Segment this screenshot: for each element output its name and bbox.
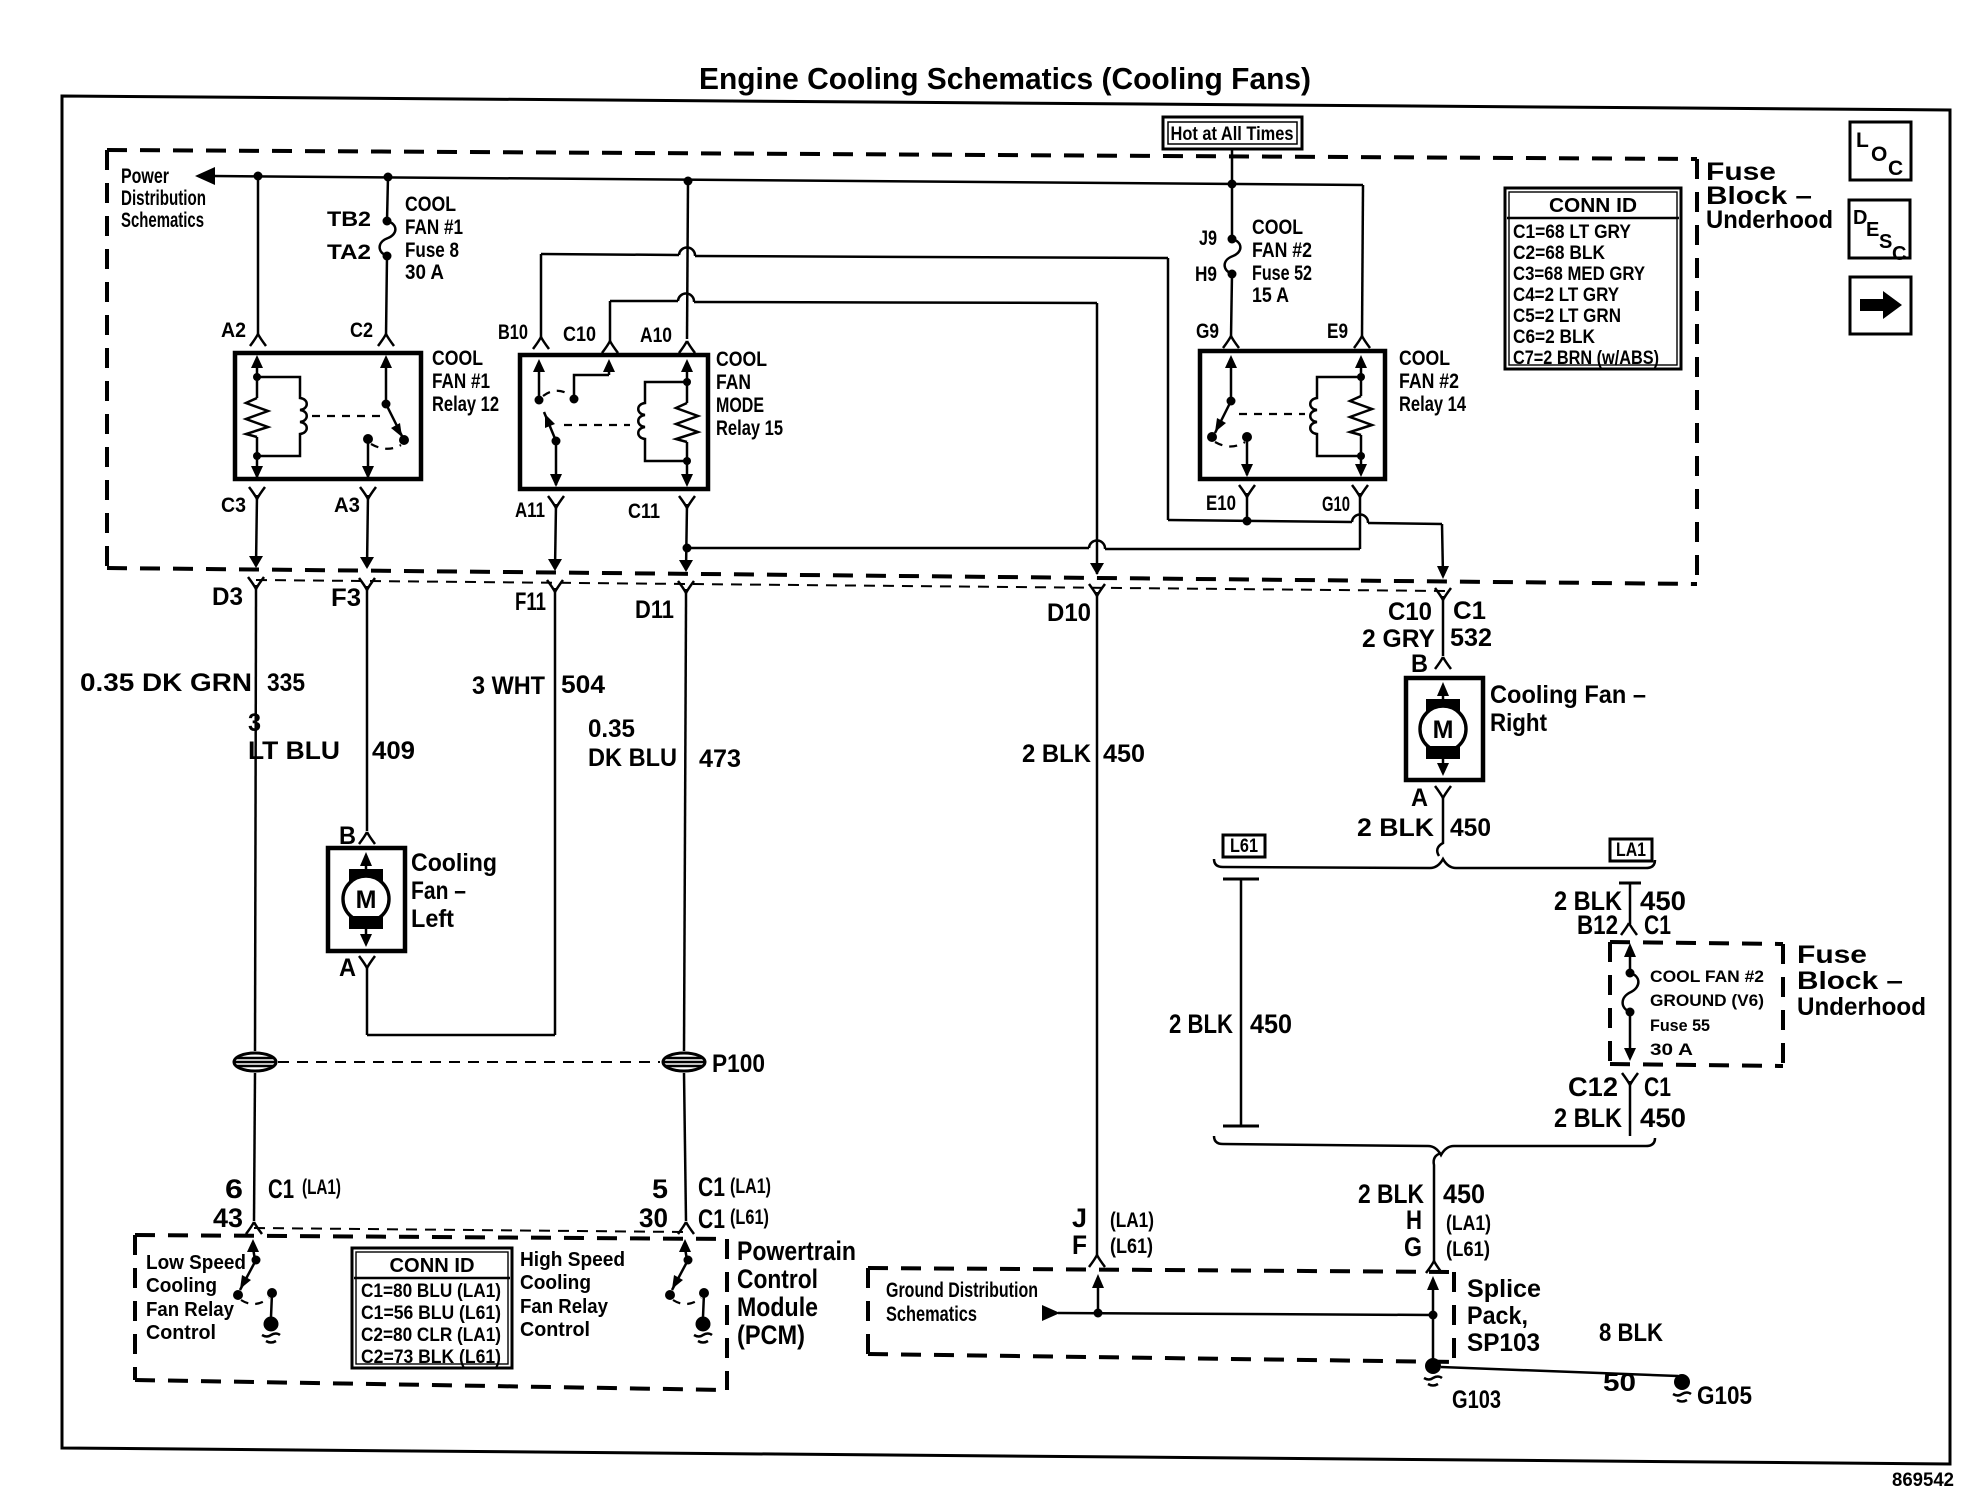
svg-text:30: 30 xyxy=(639,1203,668,1233)
connector pin A right fan xyxy=(1435,786,1451,798)
svg-text:43: 43 xyxy=(213,1203,243,1233)
svg-text:E10: E10 xyxy=(1206,492,1236,515)
svg-text:H: H xyxy=(1406,1205,1422,1235)
svg-text:Pack,: Pack, xyxy=(1467,1302,1528,1330)
wire D11 down to P100 xyxy=(684,604,686,1051)
svg-text:FAN: FAN xyxy=(716,371,751,394)
node bus-fuse52 xyxy=(1228,180,1237,189)
svg-text:G105: G105 xyxy=(1697,1382,1752,1410)
svg-text:C4=2 LT GRY: C4=2 LT GRY xyxy=(1513,285,1619,306)
DESC box xyxy=(1849,200,1910,265)
Hot at All Times label box xyxy=(1163,117,1302,149)
svg-text:CONN ID: CONN ID xyxy=(1549,195,1637,217)
LOC box xyxy=(1850,122,1911,180)
svg-text:A: A xyxy=(339,954,356,982)
svg-text:O: O xyxy=(1871,143,1887,166)
svg-text:5: 5 xyxy=(652,1174,668,1204)
svg-text:FAN #1: FAN #1 xyxy=(432,370,490,393)
svg-text:A10: A10 xyxy=(640,324,672,347)
svg-text:C10: C10 xyxy=(563,323,596,346)
relay R14 linkage dashes xyxy=(1239,413,1305,415)
svg-text:Underhood: Underhood xyxy=(1706,206,1833,234)
svg-text:Fuse 55: Fuse 55 xyxy=(1650,1016,1710,1035)
relay R15 switch pin B10 xyxy=(533,359,545,405)
label J F (LA1) (L61) xyxy=(1072,1203,1154,1260)
svg-text:450: 450 xyxy=(1640,1103,1686,1133)
connector pin C11 xyxy=(679,496,695,508)
svg-text:Block –: Block – xyxy=(1797,967,1903,995)
relay R12 box (COOL FAN #1 Relay 12) xyxy=(235,353,421,479)
svg-text:(LA1): (LA1) xyxy=(302,1176,341,1199)
connector pin B right fan xyxy=(1435,657,1451,669)
svg-text:Splice: Splice xyxy=(1467,1275,1541,1303)
svg-text:A: A xyxy=(1411,784,1428,812)
label Fuse Block - Underhood (top right) xyxy=(1706,158,1833,234)
label Cooling Fan - Left xyxy=(411,849,497,933)
connector pin G9 xyxy=(1223,336,1239,348)
svg-text:Distribution: Distribution xyxy=(121,187,206,210)
svg-text:3: 3 xyxy=(248,709,261,737)
svg-text:B10: B10 xyxy=(498,321,528,344)
svg-text:C6=2 BLK: C6=2 BLK xyxy=(1513,327,1595,348)
connector pin D10 arrow and terminal xyxy=(1089,563,1105,607)
svg-text:Control: Control xyxy=(520,1319,590,1341)
svg-text:Relay 15: Relay 15 xyxy=(716,417,783,440)
label High Speed Cooling Fan Relay Control xyxy=(520,1249,625,1341)
label Cooling Fan - Right xyxy=(1490,681,1646,737)
svg-text:A3: A3 xyxy=(334,494,360,517)
connector pin C10 xyxy=(602,341,618,353)
label Splice Pack SP103 xyxy=(1467,1275,1541,1357)
switch high speed cooling fan relay control xyxy=(665,1239,712,1343)
connector pin F11 arrow and terminal xyxy=(547,559,563,603)
connector pin B left fan xyxy=(359,832,375,844)
svg-text:(LA1): (LA1) xyxy=(1446,1212,1491,1235)
svg-text:COOL: COOL xyxy=(716,348,767,371)
node J-F ground junction xyxy=(1094,1309,1103,1318)
svg-text:C1: C1 xyxy=(1644,910,1671,940)
relay R15 contact arc dashes xyxy=(543,391,570,396)
relay R15 armature from A11 pivot xyxy=(544,412,562,487)
connector pin F3 arrow and terminal xyxy=(359,557,375,601)
wire F3 down to left fan B xyxy=(366,601,369,831)
svg-text:(L61): (L61) xyxy=(1110,1235,1153,1258)
svg-text:TA2: TA2 xyxy=(327,241,371,264)
svg-text:G10: G10 xyxy=(1322,493,1350,516)
svg-text:F11: F11 xyxy=(515,588,546,616)
svg-text:C2: C2 xyxy=(350,319,373,342)
svg-text:(LA1): (LA1) xyxy=(730,1175,771,1198)
relay R14 box (COOL FAN #2 Relay 14) xyxy=(1200,351,1385,479)
node E10 junction xyxy=(1243,517,1252,526)
svg-text:CONN ID: CONN ID xyxy=(390,1255,475,1277)
wire Hot at All Times to fuse 52 xyxy=(1231,149,1234,239)
svg-text:E9: E9 xyxy=(1327,320,1348,343)
label Powertrain Control Module (PCM) xyxy=(737,1236,856,1350)
svg-text:(L61): (L61) xyxy=(730,1206,769,1229)
PCM CONN ID table xyxy=(352,1248,512,1368)
wire P100 right to PCM pin 5-30 xyxy=(684,1073,686,1221)
wire brace to H-G xyxy=(1434,1153,1441,1261)
svg-text:2 GRY: 2 GRY xyxy=(1362,625,1435,653)
wire F11 down and over to left fan A xyxy=(367,603,555,1035)
svg-text:409: 409 xyxy=(372,737,415,765)
svg-text:C5=2 LT GRN: C5=2 LT GRN xyxy=(1513,306,1621,327)
wire G10 return line to C11 node xyxy=(687,540,1360,549)
label COOL FAN #1 Relay 12 xyxy=(432,347,499,416)
connector pin E10 xyxy=(1239,485,1255,497)
svg-text:2 BLK: 2 BLK xyxy=(1022,740,1091,768)
label COOL FAN #1 Fuse 8 30 A xyxy=(405,193,463,284)
svg-text:Fuse: Fuse xyxy=(1797,941,1867,969)
svg-text:2 BLK: 2 BLK xyxy=(1357,814,1434,842)
connector pin A2 xyxy=(250,334,266,346)
svg-text:15 A: 15 A xyxy=(1252,284,1289,307)
svg-text:Fuse 8: Fuse 8 xyxy=(405,239,459,262)
PCM connector terminal low speed xyxy=(246,1222,262,1234)
motor M1 Cooling Fan Left xyxy=(328,848,405,951)
svg-text:Cooling: Cooling xyxy=(520,1272,591,1294)
label box LA1 xyxy=(1610,839,1652,861)
svg-text:C10: C10 xyxy=(1388,598,1432,626)
svg-text:Fuse 52: Fuse 52 xyxy=(1252,262,1312,285)
wire P100 left to PCM pin 6-43 xyxy=(254,1073,255,1221)
wire B10 riser and corner to relay 14 side xyxy=(541,248,1168,521)
svg-text:C12: C12 xyxy=(1568,1072,1618,1102)
harness top brace xyxy=(1214,859,1655,868)
svg-text:(L61): (L61) xyxy=(1446,1238,1490,1261)
svg-text:Cooling Fan –: Cooling Fan – xyxy=(1490,681,1646,709)
svg-text:L: L xyxy=(1856,129,1869,152)
svg-text:2 BLK: 2 BLK xyxy=(1169,1009,1233,1039)
svg-text:Relay 12: Relay 12 xyxy=(432,393,499,416)
svg-text:C1: C1 xyxy=(698,1204,725,1234)
switch low speed cooling fan relay control xyxy=(233,1239,280,1343)
ground distribution dashed box xyxy=(868,1268,1454,1362)
svg-text:C3=68 MED GRY: C3=68 MED GRY xyxy=(1513,264,1645,285)
relay R14 switch pin G9 xyxy=(1207,355,1253,477)
svg-text:TB2: TB2 xyxy=(327,208,371,231)
svg-text:Cooling: Cooling xyxy=(411,849,497,877)
label Power Distribution Schematics xyxy=(121,165,206,232)
svg-text:C: C xyxy=(1888,157,1903,180)
wire bus to fuse 8 xyxy=(387,177,388,221)
svg-text:450: 450 xyxy=(1103,740,1145,768)
wire A2 from bus to relay 12 xyxy=(257,176,260,336)
svg-text:C7=2 BRN (w/ABS): C7=2 BRN (w/ABS) xyxy=(1513,348,1659,369)
connector pin A left fan xyxy=(359,956,375,968)
svg-text:FAN #2: FAN #2 xyxy=(1252,239,1312,262)
svg-text:DK BLU: DK BLU xyxy=(588,744,677,772)
svg-text:D3: D3 xyxy=(212,583,243,611)
wire E10 down to splice line xyxy=(1246,493,1249,521)
svg-text:C1: C1 xyxy=(268,1174,294,1204)
connector pin A11 xyxy=(548,496,564,508)
svg-text:COOL: COOL xyxy=(1252,216,1303,239)
fuse F55 (COOL FAN #2 GROUND Fuse 55) xyxy=(1623,943,1639,1061)
relay R12 switch pin C2-A3 xyxy=(362,355,409,479)
svg-text:Engine Cooling Schematics (Coo: Engine Cooling Schematics (Cooling Fans) xyxy=(699,61,1311,96)
svg-text:8 BLK: 8 BLK xyxy=(1599,1319,1663,1347)
svg-text:Cooling: Cooling xyxy=(146,1275,217,1297)
wire A11 to F11 connector xyxy=(555,504,556,569)
svg-text:Power: Power xyxy=(121,165,169,188)
connector pin C2 xyxy=(378,334,394,346)
PCM pin labels 5 30 C1 C1 xyxy=(639,1172,771,1234)
svg-text:C11: C11 xyxy=(628,500,660,523)
connector pin G10 xyxy=(1352,485,1368,497)
svg-text:450: 450 xyxy=(1443,1179,1485,1209)
svg-text:C1: C1 xyxy=(1453,597,1486,625)
harness bottom brace xyxy=(1214,1136,1655,1155)
PCM thin dashed pin line xyxy=(254,1228,686,1232)
svg-text:L61: L61 xyxy=(1230,836,1258,857)
svg-text:COOL: COOL xyxy=(405,193,456,216)
svg-text:G103: G103 xyxy=(1452,1386,1501,1414)
svg-text:0.35 DK GRN: 0.35 DK GRN xyxy=(80,669,252,697)
wire G103 to G105 8 BLK 50 xyxy=(1441,1367,1678,1376)
node bus-C2 xyxy=(384,173,393,182)
svg-text:C1=80 BLU (LA1): C1=80 BLU (LA1) xyxy=(361,1281,501,1302)
svg-text:F3: F3 xyxy=(331,584,361,612)
svg-text:S: S xyxy=(1879,231,1892,253)
relay R15 box (COOL FAN MODE Relay 15) xyxy=(520,355,708,489)
svg-text:450: 450 xyxy=(1250,1009,1292,1039)
power bus wire with left arrow xyxy=(195,167,1363,185)
svg-text:COOL FAN #2: COOL FAN #2 xyxy=(1650,967,1764,986)
svg-text:F: F xyxy=(1072,1230,1087,1260)
svg-text:532: 532 xyxy=(1450,624,1492,652)
svg-text:FAN #1: FAN #1 xyxy=(405,216,463,239)
svg-text:Control: Control xyxy=(737,1264,818,1294)
dashed link P100 xyxy=(278,1061,660,1063)
svg-text:Underhood: Underhood xyxy=(1797,993,1926,1021)
connector pin J-F xyxy=(1089,1255,1105,1267)
svg-text:J9: J9 xyxy=(1199,227,1217,250)
svg-text:G9: G9 xyxy=(1196,320,1219,343)
forward arrow box xyxy=(1850,277,1911,334)
svg-text:C2=80 CLR (LA1): C2=80 CLR (LA1) xyxy=(361,1325,501,1346)
label Ground Distribution Schematics xyxy=(886,1279,1038,1326)
wire C10 riser and corner to D10 xyxy=(610,293,1097,574)
svg-text:Low Speed: Low Speed xyxy=(146,1252,246,1274)
svg-text:J: J xyxy=(1072,1203,1087,1233)
node bus-A2 xyxy=(254,172,263,181)
PCM connector terminal high speed xyxy=(678,1222,694,1234)
svg-text:Schematics: Schematics xyxy=(886,1303,977,1326)
connector pin C12 xyxy=(1622,1073,1638,1136)
svg-text:6: 6 xyxy=(225,1174,243,1204)
svg-text:Module: Module xyxy=(737,1292,818,1322)
svg-text:COOL: COOL xyxy=(432,347,483,370)
connector pin C10-C1 terminal xyxy=(1435,588,1451,656)
wire A3 to F3 connector xyxy=(367,495,368,567)
svg-text:C2=73 BLK (L61): C2=73 BLK (L61) xyxy=(361,1347,501,1368)
svg-text:450: 450 xyxy=(1450,814,1491,842)
svg-text:Schematics: Schematics xyxy=(121,209,204,232)
svg-text:C1: C1 xyxy=(1644,1072,1671,1102)
svg-text:C1: C1 xyxy=(698,1172,725,1202)
label COOL FAN #2 Fuse 52 15 A xyxy=(1252,216,1312,307)
fuse block 55 dashed box xyxy=(1610,942,1783,1066)
svg-text:Right: Right xyxy=(1490,709,1548,737)
svg-text:Powertrain: Powertrain xyxy=(737,1236,856,1266)
svg-text:Fan –: Fan – xyxy=(411,877,466,905)
relay R15 linkage dashes xyxy=(564,424,630,426)
grommet P100 left xyxy=(234,1053,276,1071)
svg-text:H9: H9 xyxy=(1195,263,1217,286)
label COOL FAN #2 Relay 14 xyxy=(1399,347,1466,416)
svg-text:MODE: MODE xyxy=(716,394,764,417)
fuse F52 (COOL FAN #2 Fuse 52 15 A) xyxy=(1225,235,1241,279)
wire C3 to D3 connector xyxy=(256,495,257,566)
svg-text:335: 335 xyxy=(267,669,305,697)
svg-text:LA1: LA1 xyxy=(1616,840,1646,861)
wire C11 to D11 connector with branch node xyxy=(686,504,687,570)
svg-text:LT BLU: LT BLU xyxy=(248,737,340,765)
svg-text:M: M xyxy=(356,886,377,914)
svg-text:Fan Relay: Fan Relay xyxy=(146,1299,235,1321)
svg-text:C: C xyxy=(1892,243,1906,265)
label Low Speed Cooling Fan Relay Control xyxy=(146,1252,246,1344)
wire right fan A to harness brace xyxy=(1437,796,1443,856)
connector pin C3 xyxy=(249,487,265,499)
svg-text:G: G xyxy=(1404,1232,1422,1262)
wire D3 down to P100 xyxy=(255,600,256,1051)
svg-text:E: E xyxy=(1866,219,1879,241)
svg-text:473: 473 xyxy=(699,745,741,773)
fuse block underhood dashed box xyxy=(107,150,1697,584)
svg-text:3 WHT: 3 WHT xyxy=(472,672,545,700)
svg-text:Fan Relay: Fan Relay xyxy=(520,1296,609,1318)
svg-text:C2=68 BLK: C2=68 BLK xyxy=(1513,243,1605,264)
wire splice E10 to fan right drop xyxy=(1168,514,1449,579)
PCM dashed box xyxy=(135,1235,727,1390)
label H G (LA1) (L61) xyxy=(1404,1205,1491,1262)
svg-text:869542: 869542 xyxy=(1892,1470,1954,1491)
svg-text:2 BLK: 2 BLK xyxy=(1554,1103,1622,1133)
relay R15 coil winding xyxy=(638,382,687,461)
svg-text:Hot at All Times: Hot at All Times xyxy=(1171,124,1294,145)
wire fuse 8 to C2 xyxy=(386,256,387,336)
svg-text:0.35: 0.35 xyxy=(588,715,635,743)
svg-text:GROUND (V6): GROUND (V6) xyxy=(1650,991,1764,1010)
relay R15 pin C10 stub xyxy=(570,359,616,404)
svg-text:High Speed: High Speed xyxy=(520,1249,625,1271)
svg-text:FAN #2: FAN #2 xyxy=(1399,370,1459,393)
label Fuse Block - Underhood (mid right) xyxy=(1797,941,1926,1021)
relay R12 coil pin A2-C3 xyxy=(246,355,268,479)
relay R14 coil pin E9-G10 xyxy=(1350,355,1372,477)
svg-text:50: 50 xyxy=(1603,1369,1636,1397)
svg-text:B: B xyxy=(1411,650,1428,678)
fuse F8 (COOL FAN #1 Fuse 8 30 A) xyxy=(380,217,396,261)
connector pin A3 xyxy=(360,487,376,499)
wire A10 from bus to relay 15 xyxy=(687,181,688,339)
grommet P100 right xyxy=(663,1053,705,1071)
PCM pin labels 6 43 C1 xyxy=(213,1174,341,1233)
svg-text:M: M xyxy=(1433,716,1454,744)
svg-text:Control: Control xyxy=(146,1322,216,1344)
wire J-F into ground box xyxy=(1092,1274,1104,1313)
connector pin D11 arrow and terminal xyxy=(678,560,694,604)
wire G10 down crossing splice line xyxy=(1359,493,1362,549)
node H-G ground junction xyxy=(1429,1311,1438,1320)
svg-text:Relay 14: Relay 14 xyxy=(1399,393,1466,416)
ground feed wire with arrow xyxy=(1042,1305,1433,1321)
relay R15 coil pin A10-C11 xyxy=(676,359,698,487)
ground G105 xyxy=(1673,1374,1691,1402)
svg-text:(PCM): (PCM) xyxy=(737,1320,805,1350)
wire fuse 52 to G9 xyxy=(1231,274,1232,337)
svg-text:COOL: COOL xyxy=(1399,347,1450,370)
connector pin H-G xyxy=(1426,1261,1442,1273)
svg-text:C1=56 BLU (L61): C1=56 BLU (L61) xyxy=(361,1303,501,1324)
motor M2 Cooling Fan Right xyxy=(1406,678,1483,780)
node bus-A10 xyxy=(684,177,693,186)
svg-text:C1=68 LT GRY: C1=68 LT GRY xyxy=(1513,222,1631,243)
label COOL FAN #2 GROUND (V6) Fuse 55 30 A xyxy=(1650,967,1764,1059)
connector pin D3 arrow and terminal xyxy=(248,556,264,600)
connector row thin dashed line xyxy=(256,580,1445,591)
svg-text:B12: B12 xyxy=(1577,910,1618,940)
label COOL FAN MODE Relay 15 xyxy=(716,348,783,440)
relay R12 coil winding xyxy=(257,377,307,456)
svg-text:504: 504 xyxy=(561,671,605,699)
svg-text:D10: D10 xyxy=(1047,599,1091,627)
wire E9 from bus corner xyxy=(1362,185,1363,337)
relay R12 linkage dashes xyxy=(312,415,380,417)
svg-text:Left: Left xyxy=(411,905,455,933)
wire D10 down to PCM J-F xyxy=(1096,607,1099,1255)
connector pin B10 xyxy=(533,337,549,349)
label box L61 xyxy=(1223,835,1265,857)
svg-text:A2: A2 xyxy=(221,319,246,342)
svg-text:P100: P100 xyxy=(712,1050,765,1078)
wire H-G into ground box to G103 xyxy=(1427,1276,1439,1362)
svg-text:SP103: SP103 xyxy=(1467,1329,1540,1357)
svg-text:D11: D11 xyxy=(635,596,674,624)
node C11-G10 junction xyxy=(683,544,692,553)
svg-text:C3: C3 xyxy=(221,494,246,517)
ground G103 xyxy=(1424,1358,1442,1386)
svg-text:(LA1): (LA1) xyxy=(1110,1209,1154,1232)
svg-text:30 A: 30 A xyxy=(1650,1040,1693,1059)
connector pin A10 xyxy=(679,341,695,353)
top CONN ID table xyxy=(1505,188,1681,369)
harness right leg to B12 xyxy=(1619,883,1641,935)
svg-text:A11: A11 xyxy=(515,499,545,522)
relay R14 coil winding xyxy=(1310,377,1361,456)
svg-text:30 A: 30 A xyxy=(405,261,444,284)
svg-text:Ground Distribution: Ground Distribution xyxy=(886,1279,1038,1302)
harness left leg bracket xyxy=(1223,879,1259,1126)
connector pin E9 xyxy=(1354,336,1370,348)
